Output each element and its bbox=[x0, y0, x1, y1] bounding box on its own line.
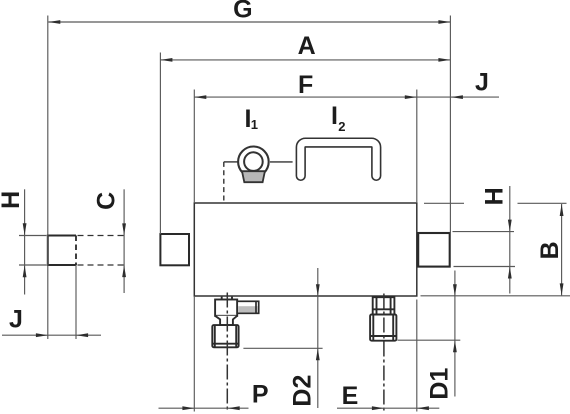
dimension line D1 bbox=[453, 271, 457, 397]
extension line far left vertical (G/J) bbox=[47, 16, 49, 340]
dimension line A bbox=[160, 58, 450, 62]
body main block outline bbox=[194, 203, 416, 296]
extension line flange right lower bbox=[75, 265, 77, 339]
eye bolt U1 outer ring bbox=[238, 147, 269, 178]
left port block bbox=[160, 234, 189, 265]
extension line A/G right bbox=[449, 16, 451, 234]
eye bolt inner ring bbox=[244, 152, 263, 171]
extension line D1 bottom reference bbox=[398, 339, 461, 341]
dimension line B bbox=[560, 204, 564, 295]
right port block bbox=[418, 233, 450, 267]
left fitting lower block bbox=[212, 325, 238, 347]
dimension line C bbox=[122, 189, 126, 293]
right fitting centerline bbox=[383, 294, 385, 412]
dimension line H left bbox=[23, 189, 27, 294]
svg-text:H: H bbox=[481, 187, 509, 205]
svg-text:H: H bbox=[0, 191, 25, 209]
dimension line F and J (top right) bbox=[194, 95, 499, 99]
svg-text:G: G bbox=[233, 0, 252, 24]
flange bore dashed lines bbox=[78, 236, 125, 266]
extension line body bottom right (B/D1) bbox=[421, 295, 570, 297]
left fitting side tube bbox=[237, 301, 259, 313]
left fitting upper block bbox=[215, 297, 237, 316]
svg-text:2: 2 bbox=[338, 119, 345, 134]
dimension line E bbox=[337, 406, 439, 410]
dimension line J bottom left bbox=[2, 333, 101, 337]
svg-text:D2: D2 bbox=[288, 375, 316, 407]
svg-text:J: J bbox=[475, 69, 489, 97]
extension line body top right (B) bbox=[424, 202, 567, 204]
handle I2 inner white bbox=[301, 143, 377, 176]
extension line F left / body left / P left bbox=[193, 90, 195, 204]
svg-text:I: I bbox=[331, 102, 338, 130]
eye bolt dashed stud line bbox=[223, 162, 225, 203]
svg-text:D1: D1 bbox=[426, 368, 454, 400]
svg-text:E: E bbox=[342, 382, 359, 410]
extension line port top right (H) bbox=[453, 231, 515, 233]
svg-text:B: B bbox=[536, 241, 564, 259]
extension line D2 bottom reference bbox=[243, 347, 322, 349]
svg-text:F: F bbox=[298, 71, 313, 99]
eye bolt right leader line bbox=[270, 161, 293, 163]
handle I2 outer tube bbox=[301, 143, 377, 176]
dimension line D2 bbox=[316, 268, 320, 408]
flange H extension stubs bbox=[19, 236, 47, 266]
right fitting lower block bbox=[370, 315, 396, 341]
extension line F right / body right / E right bbox=[416, 90, 418, 204]
svg-text:1: 1 bbox=[251, 117, 258, 132]
svg-text:A: A bbox=[298, 32, 316, 60]
right fitting upper block bbox=[373, 297, 395, 314]
left fitting centerline bbox=[226, 293, 228, 412]
svg-text:J: J bbox=[9, 306, 23, 334]
left fitting neck bbox=[215, 316, 237, 325]
dimension line G bbox=[48, 20, 450, 24]
svg-text:P: P bbox=[252, 380, 269, 408]
dimension line P bbox=[159, 406, 249, 410]
extension line A left bbox=[159, 53, 161, 235]
svg-text:C: C bbox=[93, 192, 121, 210]
extension line port bottom right (H) bbox=[454, 266, 516, 268]
dimension line H right bbox=[508, 186, 512, 294]
left flange detail rectangle bbox=[48, 236, 76, 266]
eye bolt left leader line bbox=[224, 161, 238, 163]
eye bolt nut bbox=[242, 171, 265, 182]
